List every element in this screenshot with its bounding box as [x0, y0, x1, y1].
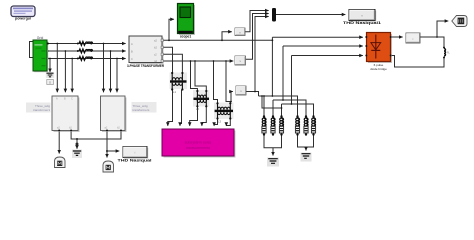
svg-text:G: G	[49, 80, 51, 84]
svg-text:subsystem pulse: subsystem pulse	[185, 141, 212, 145]
svg-text:L3: L3	[218, 119, 221, 123]
svg-text:transformer1: transformer1	[33, 108, 50, 112]
svg-text:C: C	[71, 98, 73, 101]
svg-text:A: A	[131, 42, 133, 46]
svg-text:L1: L1	[173, 90, 176, 94]
svg-text:Grid: Grid	[37, 36, 44, 40]
svg-text:C: C	[131, 57, 133, 61]
svg-text:THD Nasiqual1: THD Nasiqual1	[343, 21, 381, 25]
svg-text:diode bridge: diode bridge	[370, 67, 387, 71]
svg-text:transformers: transformers	[133, 108, 150, 112]
svg-text:scope1: scope1	[180, 34, 192, 38]
svg-text:RL: RL	[447, 52, 451, 55]
svg-text:L2: L2	[196, 107, 199, 111]
svg-text:THD Nasiqual: THD Nasiqual	[118, 158, 152, 162]
svg-text:measurements: measurements	[186, 146, 210, 150]
svg-text:3-PHASE TRANSFORMER: 3-PHASE TRANSFORMER	[127, 64, 165, 68]
svg-text:B: B	[131, 50, 133, 54]
svg-text:powergui: powergui	[15, 17, 31, 21]
